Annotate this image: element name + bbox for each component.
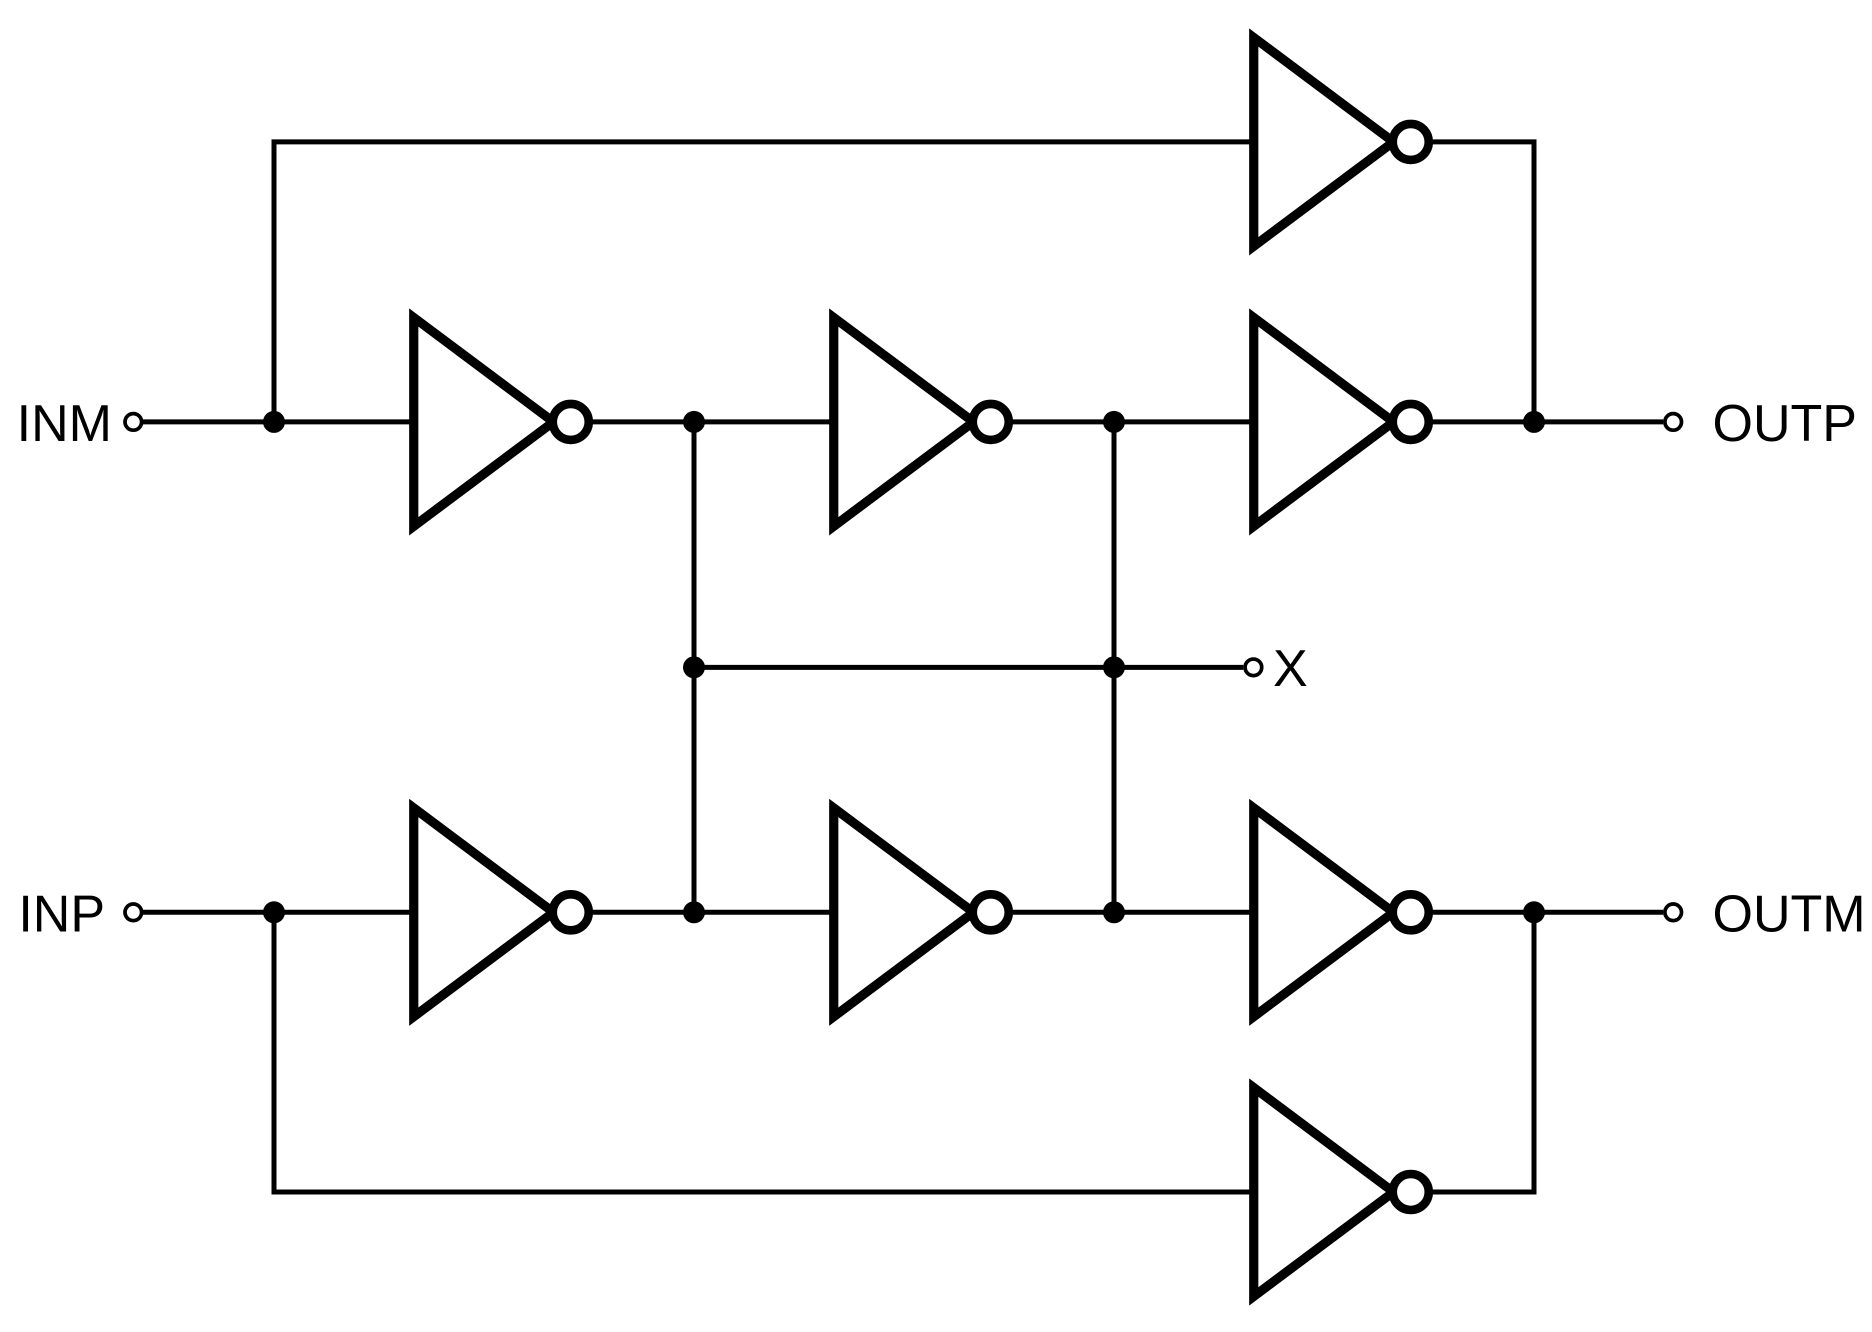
svg-text:INM: INM [17, 395, 112, 453]
svg-text:INP: INP [18, 885, 105, 943]
svg-text:X: X [1273, 640, 1308, 698]
svg-text:OUTP: OUTP [1713, 395, 1857, 453]
svg-text:OUTM: OUTM [1713, 885, 1866, 943]
